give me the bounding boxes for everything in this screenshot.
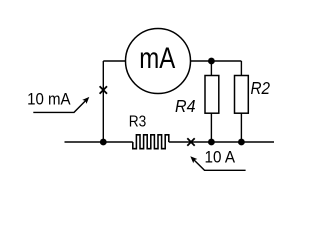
wire: 10 mA pointer line [33,99,87,113]
arrow head for 10 A pointer [190,156,197,163]
wire: left vertical branch [102,61,104,142]
wire: R4 bottom lead [210,113,212,142]
node: junction dot bottom rail at R2 [238,139,245,146]
wire: bottom horizontal rail right of R3 [169,141,274,143]
wire: bottom horizontal rail left of R3 [65,141,133,143]
node: junction dot top rail at R4 [208,58,215,65]
node: junction dot bottom rail at R4 [208,139,215,146]
resistor R4 (rectangle body) [205,76,219,114]
wire: 10 A pointer line [194,160,245,170]
svg-text:10 A: 10 A [205,149,236,167]
svg-text:R2: R2 [251,78,271,98]
svg-text:mA: mA [139,42,175,75]
node: measuring point X on left branch [100,86,107,93]
wire: left stub from ammeter [103,60,125,62]
resistor R2 (rectangle body) [235,76,249,114]
node: measuring point X on bottom rail [187,138,194,145]
svg-text:R3: R3 [129,113,147,130]
wire: drop from corner to R2 [240,61,242,76]
svg-text:10 mA: 10 mA [27,90,71,108]
node: junction dot left branch / bottom rail [100,139,107,146]
wire: R2 bottom lead [240,113,242,142]
resistor R3 (meander symbol) [133,135,169,149]
svg-text:R4: R4 [175,96,196,116]
op: ammeter U1 circle [126,29,191,94]
wire: drop from node to R4 [210,61,212,76]
arrow head for 10 mA pointer [82,97,89,104]
wire: right stub from ammeter to R2 corner [191,60,242,62]
